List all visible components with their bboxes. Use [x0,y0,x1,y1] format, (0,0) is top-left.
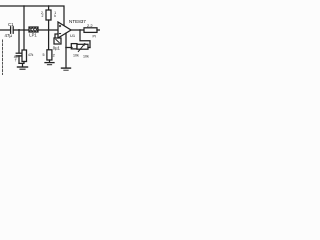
wire output node down to pot [80,30,90,48]
wire R3 bottom lead [49,60,51,62]
junction node dots [18,5,81,48]
svg-text:k: k [54,14,56,18]
svg-text:LP1: LP1 [29,33,37,38]
wire inverting input stub [55,34,58,38]
filter LP1 box [29,27,38,32]
svg-text:NTE837: NTE837 [69,19,86,24]
wire rail drop to resistor R1 [48,6,50,10]
svg-text:5: 5 [43,53,45,57]
svg-text:47k: 47k [28,53,34,57]
svg-text:10k: 10k [73,54,79,58]
wire C2 bottom lead [18,56,20,64]
wire op-amp ground pin [65,33,67,68]
wire top supply rail [0,6,64,26]
wire output to edge [97,29,100,31]
ground middle-left [45,62,54,64]
resistor R3 [47,50,52,60]
ground right [62,67,71,69]
svg-text:2.2: 2.2 [87,23,93,28]
wire R2 bottom lead [19,62,24,67]
svg-text:47µ: 47µ [5,33,13,38]
wiper arrow [78,44,85,52]
svg-text:U1: U1 [70,33,76,38]
resistor R2 [22,50,27,62]
capacitor C3 box [54,38,61,44]
dashed shield line [2,40,4,75]
wire R1 bottom lead [48,20,50,50]
wire after C1 [13,29,58,31]
wiper arrowhead [83,43,86,46]
op-amp input polarity marks [59,25,61,34]
wire node down to resistor R2 [23,30,25,50]
capacitor C2 [16,52,22,54]
wire pot right terminal [88,47,90,49]
ground left [18,66,28,68]
wire node down to C2 branch [18,30,20,53]
svg-text:10k: 10k [83,55,89,59]
resistor R1 [46,10,51,20]
wire rail drop to input node [23,6,25,30]
wire pot left terminal [66,47,72,49]
wire input signal line [0,29,10,31]
svg-text:0µ1: 0µ1 [53,45,61,50]
potentiometer P1 [71,44,77,49]
resistor R4 [84,28,97,33]
svg-text:2: 2 [42,14,44,18]
capacitor C1 [11,27,14,33]
op-amp U1 [58,22,71,38]
svg-text:7: 7 [15,59,17,63]
wire output [71,29,84,31]
svg-text:C1: C1 [8,22,14,27]
